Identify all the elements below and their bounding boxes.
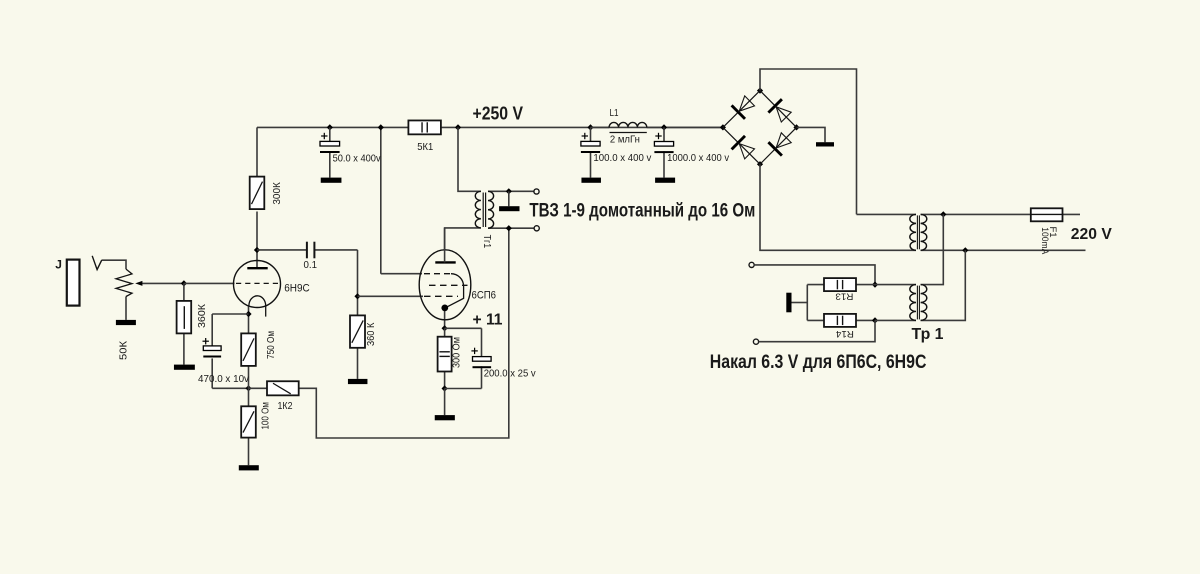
wire 200uF bottom lead bbox=[481, 366, 483, 388]
svg-text:1000.0 x 400 v: 1000.0 x 400 v bbox=[667, 152, 730, 164]
resistor R13 bbox=[824, 278, 856, 291]
node R13 right bbox=[872, 282, 878, 288]
terminal heater bottom bbox=[753, 339, 758, 344]
plus 1000uF bbox=[655, 135, 661, 137]
diode bridge top-right bbox=[760, 91, 797, 128]
wire 300K top lead bbox=[256, 127, 258, 176]
wire +250V rail bbox=[257, 126, 723, 128]
node R14 right bbox=[872, 317, 878, 323]
wire gnd stem R13R14 bbox=[792, 302, 808, 304]
transformer Tg1 secondary coil bbox=[488, 191, 494, 228]
svg-text:100 Ом: 100 Ом bbox=[260, 402, 272, 430]
node anode 6N9S bbox=[254, 247, 260, 253]
wire 300R gnd lead bbox=[444, 389, 446, 416]
svg-text:100mA: 100mA bbox=[1039, 227, 1050, 255]
wire primary2 bottom bbox=[921, 250, 966, 320]
resistor 1K2 bbox=[267, 381, 299, 395]
tube 6SP6 beam plate bbox=[447, 274, 464, 308]
wire mains top right bbox=[1063, 213, 1081, 215]
svg-text:Накал 6.3 V для 6П6С, 6Н9С: Накал 6.3 V для 6П6С, 6Н9С bbox=[710, 352, 927, 373]
tube 6SP6 screen grid bbox=[424, 273, 451, 275]
node cathode network bbox=[245, 385, 251, 391]
wire 300K bottom to anode bbox=[256, 212, 258, 269]
fuse F1 bbox=[1031, 208, 1063, 221]
tube 6SP6 anode bbox=[435, 261, 455, 263]
svg-text:470.0 x 10v: 470.0 x 10v bbox=[198, 373, 250, 385]
ground bridge bbox=[816, 142, 834, 146]
wire grid lead 6N9S bbox=[184, 282, 235, 284]
svg-text:+250 V: +250 V bbox=[473, 104, 524, 124]
svg-text:360 К: 360 К bbox=[365, 322, 377, 346]
wire 360K gnd lead bbox=[183, 333, 185, 364]
tube 6N9S anode bbox=[247, 267, 267, 269]
svg-text:50К: 50К bbox=[118, 340, 130, 360]
node 6SP6 cathode bottom bbox=[442, 385, 448, 391]
tube 6SP6 cathode dot bbox=[441, 305, 448, 312]
inductor L1 bbox=[609, 122, 647, 127]
wire 0.1 cap to grid node bbox=[314, 249, 357, 251]
wire rail to L1 bbox=[591, 126, 610, 128]
wire 750R bottom bbox=[248, 366, 250, 388]
wire OT primary top lead bbox=[458, 127, 481, 191]
resistor 360K bbox=[177, 301, 192, 334]
node grid 6SP6 bbox=[354, 293, 360, 299]
ground 100R bbox=[239, 465, 259, 470]
terminal OT sec bottom bbox=[534, 226, 539, 231]
svg-text:200.0 x 25 v: 200.0 x 25 v bbox=[484, 368, 537, 380]
wire R13 right to coil bbox=[875, 284, 916, 286]
wire mains bottom bbox=[921, 249, 1086, 251]
capacitor 470uF bbox=[203, 346, 221, 351]
potentiometer 50K zigzag bbox=[116, 269, 132, 296]
svg-text:ТВЗ 1-9 домотанный до 16 Ом: ТВЗ 1-9 домотанный до 16 Ом bbox=[529, 201, 755, 222]
transformer Tr1 heater winding bbox=[910, 285, 916, 321]
wire 6SP6 cathode lead bbox=[444, 311, 446, 328]
resistor 300K bbox=[250, 177, 265, 210]
plus 100uF bbox=[582, 135, 588, 137]
svg-text:Тр 1: Тр 1 bbox=[912, 326, 944, 343]
node bridge bottom bbox=[757, 161, 763, 167]
wire 360K top lead bbox=[183, 283, 185, 301]
wire bridge right to ground bbox=[797, 127, 826, 142]
wire 100uF leads bbox=[590, 127, 592, 141]
wire 360K2 gnd lead bbox=[357, 348, 359, 379]
transformer Tr1 primary winding bbox=[921, 214, 927, 250]
resistor 5K1 bbox=[408, 120, 441, 134]
transformer Tr1 lower core bbox=[916, 286, 918, 320]
node bridge top bbox=[757, 88, 763, 94]
wire OT secondary top bbox=[488, 190, 534, 192]
capacitor 100uF bbox=[581, 141, 600, 146]
svg-text:220 V: 220 V bbox=[1071, 226, 1112, 243]
wire 50uF leads bbox=[329, 127, 331, 141]
node bridge right bbox=[793, 124, 799, 130]
node 100uF rail bbox=[587, 124, 593, 130]
node g2 rail bbox=[378, 124, 384, 130]
wire pot top bbox=[102, 260, 126, 269]
tube 6N9S cathode bbox=[249, 296, 266, 306]
svg-text:2 млГн: 2 млГн bbox=[610, 133, 640, 145]
node mains top bbox=[940, 211, 946, 217]
wire HV winding top lead bbox=[857, 213, 917, 215]
svg-text:6СП6: 6СП6 bbox=[472, 290, 497, 302]
svg-text:100.0 x 400 v: 100.0 x 400 v bbox=[593, 152, 652, 164]
wire heater bottom bbox=[759, 320, 875, 341]
terminal heater top bbox=[749, 262, 754, 267]
svg-text:R13: R13 bbox=[835, 291, 853, 302]
wire cathode 6N9S bbox=[248, 306, 250, 314]
capacitor 1000uF bbox=[654, 142, 673, 147]
svg-text:750 Ом: 750 Ом bbox=[265, 331, 277, 359]
wire R14 right to coil bbox=[875, 319, 916, 321]
ground 300R bbox=[435, 415, 455, 420]
node OT sec bottom bbox=[506, 225, 512, 231]
wire screen g2 vertical bbox=[380, 127, 382, 273]
connector J jack bbox=[67, 260, 80, 306]
ground 100uF bbox=[581, 178, 601, 183]
wire OT sec gnd stem bbox=[508, 191, 510, 206]
svg-text:+ 11: + 11 bbox=[473, 312, 503, 329]
wire 100R leads bbox=[248, 388, 250, 406]
node OT primary rail bbox=[455, 124, 461, 130]
diode bridge bottom-right bbox=[760, 127, 797, 164]
wire cathode to 200uF bbox=[445, 327, 482, 329]
svg-text:L1: L1 bbox=[610, 107, 619, 119]
ground 50uF bbox=[321, 178, 342, 183]
svg-text:360К: 360К bbox=[196, 303, 208, 328]
transformer Tg1 core bbox=[482, 193, 484, 228]
wire OT primary bottom lead bbox=[445, 228, 481, 251]
plus 200uF bbox=[471, 350, 477, 352]
transformer Tr1 primary2 winding bbox=[921, 285, 927, 321]
wire primary2 top bbox=[921, 214, 944, 284]
svg-text:6Н9С: 6Н9С bbox=[284, 283, 310, 295]
capacitor 200uF bbox=[473, 357, 492, 362]
wire R13 R14 left bus bbox=[806, 285, 808, 321]
wire input V stub bbox=[92, 256, 102, 270]
node 50uF rail bbox=[327, 124, 333, 130]
ground OT secondary bbox=[499, 206, 519, 211]
diode bridge bottom-left bbox=[723, 127, 760, 164]
wire 1K2 left lead bbox=[249, 387, 268, 389]
node grid 6N9S bbox=[181, 280, 187, 286]
svg-text:R14: R14 bbox=[836, 328, 854, 339]
svg-text:0.1: 0.1 bbox=[304, 259, 318, 271]
transformer Tg1 primary coil bbox=[475, 191, 481, 228]
svg-text:50.0 x 400v: 50.0 x 400v bbox=[333, 152, 382, 164]
ground 360K bbox=[174, 365, 195, 370]
plus 470uF bbox=[203, 340, 209, 342]
wire mains top bbox=[921, 213, 1031, 215]
wire anode node to 0.1 cap bbox=[257, 249, 307, 251]
resistor R14 bbox=[824, 314, 856, 327]
wire bridge top to transformer bbox=[760, 69, 857, 214]
capacitor 50uF bbox=[320, 141, 340, 146]
wire bridge bottom to transformer bbox=[760, 164, 916, 250]
node OT sec top bbox=[506, 188, 512, 194]
plus 50uF bbox=[321, 135, 327, 137]
wire cathode to 470uF bbox=[212, 313, 248, 315]
tube 6N9S grid bbox=[236, 282, 278, 284]
ground 360K2 bbox=[348, 379, 368, 384]
wire wiper to grid bbox=[142, 282, 184, 284]
resistor 100 Ohm bbox=[241, 406, 256, 437]
svg-text:300К: 300К bbox=[271, 181, 283, 204]
potentiometer wiper arrow bbox=[135, 281, 142, 286]
wire 470uF bottom lead bbox=[211, 358, 213, 388]
terminal OT sec top bbox=[534, 189, 539, 194]
svg-text:1К2: 1К2 bbox=[278, 400, 293, 412]
svg-text:Тг1: Тг1 bbox=[481, 235, 492, 249]
wire R14 leads bbox=[807, 319, 824, 321]
resistor 360 K grid bbox=[350, 315, 365, 347]
node bridge left bbox=[720, 124, 726, 130]
ground 1000uF bbox=[655, 178, 675, 183]
ground pot bbox=[116, 320, 136, 325]
svg-text:5К1: 5К1 bbox=[417, 141, 433, 153]
wire 1000uF leads bbox=[663, 127, 665, 141]
svg-text:J: J bbox=[55, 258, 62, 272]
diode bridge top-left bbox=[723, 91, 760, 128]
resistor 750 Ohm bbox=[241, 333, 256, 366]
wire heater top bbox=[754, 265, 875, 285]
node 1000uF rail bbox=[661, 124, 667, 130]
tube 6SP6 envelope bbox=[419, 250, 471, 320]
ground R13 R14 bbox=[786, 293, 791, 313]
resistor 300 Ohm cathode bbox=[438, 337, 452, 372]
transformer Tr1 HV winding bbox=[910, 214, 916, 250]
wire pot bottom lead bbox=[125, 297, 127, 320]
tube 6SP6 suppressor bbox=[429, 284, 468, 286]
inductor L1 core line bbox=[610, 132, 647, 134]
wire 1K2 right feedback bbox=[299, 228, 509, 438]
wire OT secondary bottom bbox=[488, 227, 534, 229]
node mains bottom bbox=[962, 247, 968, 253]
tube 6N9S envelope bbox=[234, 261, 281, 308]
wire g1 lead 6SP6 bbox=[358, 295, 424, 297]
wire 300R leads bbox=[444, 328, 446, 336]
node cathode 6N9S bbox=[245, 311, 251, 317]
wire L1 to bridge bbox=[647, 126, 723, 128]
tube 6SP6 control grid bbox=[424, 295, 458, 297]
capacitor 0.1 coupling bbox=[306, 242, 308, 259]
tube 6SP6 anode lead bbox=[444, 228, 446, 263]
wire R13 leads bbox=[807, 284, 824, 286]
node 6SP6 cathode top bbox=[442, 325, 448, 331]
transformer Tr1 upper core bbox=[916, 215, 918, 249]
svg-text:300 Ом: 300 Ом bbox=[451, 337, 463, 368]
